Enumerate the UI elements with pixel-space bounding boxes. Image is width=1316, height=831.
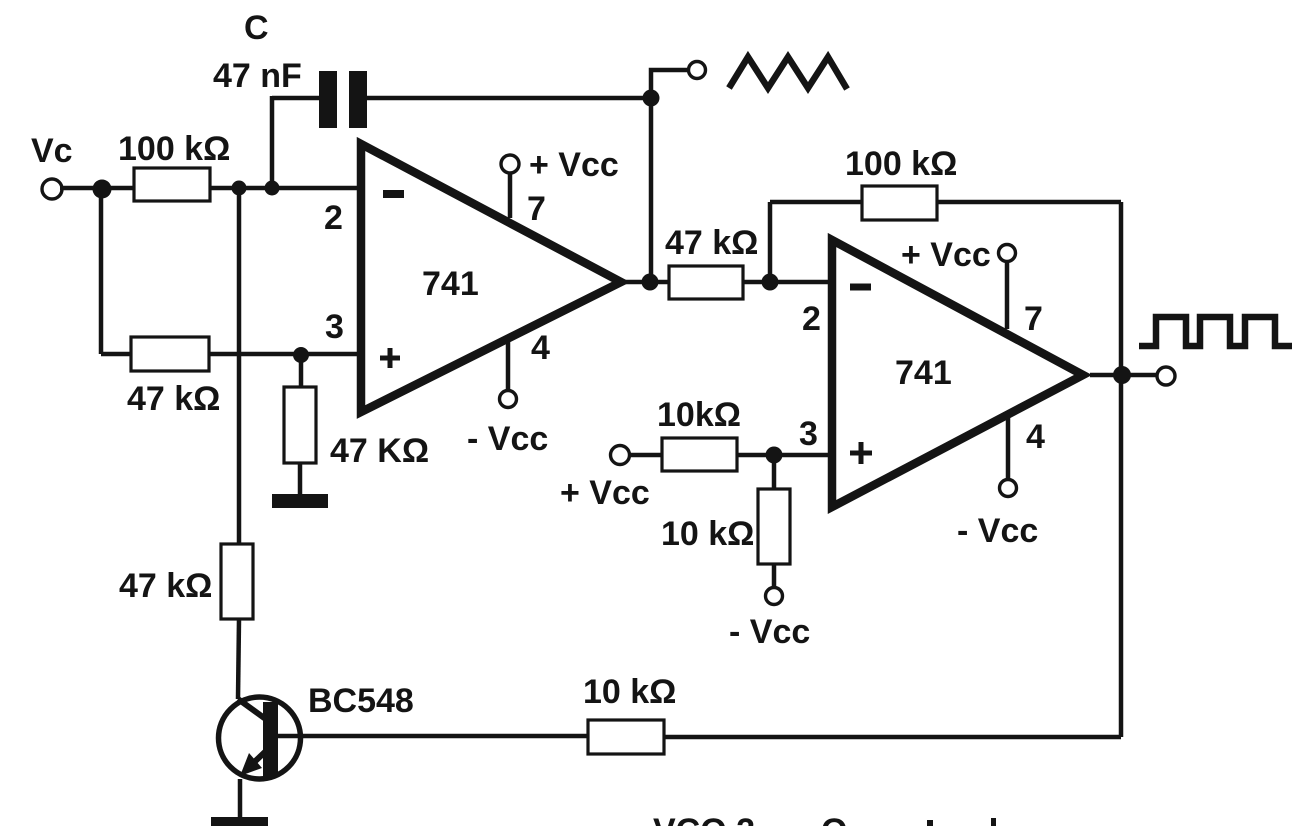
svg-text:- Vcc: - Vcc [729,613,810,651]
resistor R1 100 kOhm [134,168,210,201]
terminal U2 +Vcc [999,245,1016,262]
terminal U1 -Vcc [500,391,517,408]
svg-text:7: 7 [1024,300,1043,338]
op-amp U2 minus input marker [850,284,871,291]
resistor R5 10 kOhm [588,720,664,754]
terminal U1 +Vcc [501,155,519,173]
svg-text:100 kΩ: 100 kΩ [118,130,230,168]
svg-text:10kΩ: 10kΩ [657,396,741,434]
wire input to R1 [60,186,136,191]
wire R7 to right column [937,200,1121,205]
wire U2 +Vcc stub pin 7 [1005,261,1010,329]
svg-text:4: 4 [1026,418,1045,456]
svg-text:+ Vcc: + Vcc [901,236,991,274]
wire feedback riser [768,202,773,282]
node pin3 branch [293,347,309,363]
wire node to R3 [299,355,304,388]
svg-text:+ Vcc: + Vcc [529,146,619,184]
wire U1 +Vcc stub pin 7 [508,172,513,218]
input terminal Vc [42,179,62,199]
resistor R3 47 KOhm vertical [284,387,316,463]
svg-text:4: 4 [531,329,550,367]
ground under R3 [272,494,328,508]
svg-text:47 kΩ: 47 kΩ [119,567,212,605]
svg-text:- Vcc: - Vcc [467,420,548,458]
resistor R6 47 kOhm interstage [669,266,743,299]
caption letter tops [927,820,933,826]
wire R3 to ground [298,463,303,494]
svg-text:- Vcc: - Vcc [957,512,1038,550]
op-amp U1 triangle [361,144,621,412]
wire R8 to U2 non-inverting input [737,453,832,458]
svg-text:10 kΩ: 10 kΩ [583,673,676,711]
op-amp U1 minus input marker [383,190,404,198]
resistor R2 47 kOhm [131,337,209,371]
wire to R2 [101,352,136,357]
wire terminal to R8 [629,453,662,458]
svg-text:C: C [244,9,269,47]
terminal -Vcc bias [766,588,783,605]
svg-text:7: 7 [527,190,546,228]
wire right vertical column [1119,202,1124,737]
svg-text:47 kΩ: 47 kΩ [665,224,758,262]
capacitor C 47 nF [319,71,367,128]
triangle wave icon [729,57,847,89]
wire to capacitor left plate [272,96,319,101]
svg-text:BC548: BC548 [308,682,414,720]
svg-text:10 kΩ: 10 kΩ [661,515,754,553]
wire R6 to U2 inverting input [743,280,832,285]
resistor R7 100 kOhm feedback [862,186,937,220]
terminal +Vcc bias input [611,446,630,465]
svg-text:+ Vcc: + Vcc [560,474,650,512]
svg-text:Vc: Vc [31,132,73,170]
op-amp U1 plus input marker [380,348,400,368]
node capacitor / output column [643,90,660,107]
terminal triangle wave output [689,62,706,79]
svg-text:47 kΩ: 47 kΩ [127,380,220,418]
wire capacitor right plate to output node [367,96,651,101]
terminal square wave output [1157,367,1175,385]
svg-text:2: 2 [802,300,821,338]
wire R1 to op-amp U1 inverting input [210,186,361,191]
svg-text:O: O [821,812,847,826]
square wave icon [1139,317,1292,346]
op-amp U2 plus input marker [850,442,872,464]
svg-text:47 nF: 47 nF [213,57,302,95]
svg-text:741: 741 [895,354,952,392]
svg-text:2: 2 [324,199,343,237]
wire U2 output to terminal [1090,373,1158,378]
wire left vertical input branch [99,188,104,354]
node U2 output [1113,366,1131,384]
wire riser to R7 [770,200,862,205]
wire long vertical to R4 [237,188,242,544]
node at x272 [265,181,280,196]
wire Q1 base to R5 [278,734,588,739]
svg-text:741: 741 [422,265,479,303]
wire U2 -Vcc stub pin 4 [1006,417,1011,479]
resistor R8 10kOhm [662,438,737,471]
node U1 output [642,274,659,291]
wire R9 to -Vcc terminal [772,564,777,587]
node bias divider [766,447,783,464]
transistor Q1 BC548 [219,697,301,779]
wire R4 to Q1 collector [238,619,239,699]
ground under Q1 [211,817,268,831]
svg-text:3: 3 [799,415,818,453]
wire stub to triangle output terminal [651,70,689,98]
wire capacitor riser [270,96,275,188]
node input junction [93,180,112,199]
svg-text:47 KΩ: 47 KΩ [330,432,429,470]
svg-text:100 kΩ: 100 kΩ [845,145,957,183]
svg-text:3: 3 [325,308,344,346]
op-amp U2 triangle [832,240,1083,507]
wire R5 to right column [664,735,1121,740]
wire U1 -Vcc stub pin 4 [506,341,511,390]
wire output column down to U1 output [649,98,654,282]
node feedback branch [762,274,779,291]
svg-text:VCO 2: VCO 2 [653,812,755,826]
resistor R4 47 kOhm vertical [221,544,253,619]
wire R2 to U1 non-inverting input [210,352,361,357]
wire Q1 emitter to ground [238,779,243,817]
wire U1 output [624,280,669,285]
terminal U2 -Vcc [1000,480,1017,497]
resistor R9 10 kOhm vertical [758,489,790,564]
node at x239 [232,181,247,196]
wire node to R9 [772,455,777,489]
